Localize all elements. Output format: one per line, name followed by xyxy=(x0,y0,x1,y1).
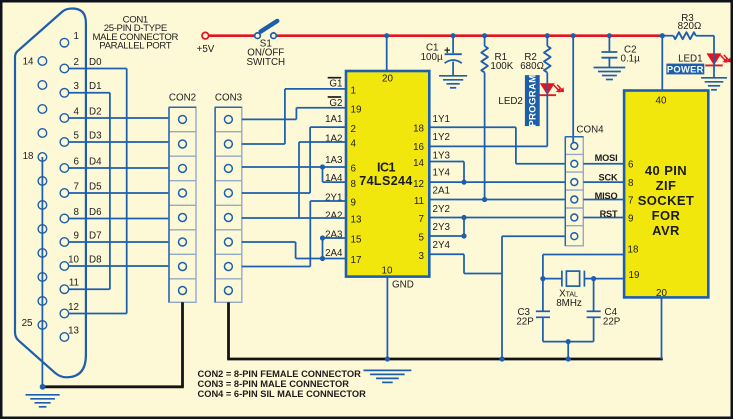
svg-text:PROGRAM: PROGRAM xyxy=(528,74,539,126)
svg-text:19: 19 xyxy=(629,270,640,281)
svg-text:10: 10 xyxy=(382,266,393,277)
svg-text:CON3: CON3 xyxy=(215,92,243,103)
svg-text:9: 9 xyxy=(628,213,633,224)
svg-text:9: 9 xyxy=(351,198,356,209)
svg-text:D8: D8 xyxy=(89,254,102,265)
svg-text:18: 18 xyxy=(628,244,639,255)
svg-text:FOR: FOR xyxy=(652,208,681,223)
svg-text:18: 18 xyxy=(23,151,34,162)
svg-text:D6: D6 xyxy=(89,207,102,218)
svg-text:1Y4: 1Y4 xyxy=(433,168,451,179)
svg-text:680Ω: 680Ω xyxy=(520,61,544,72)
svg-text:40 PIN: 40 PIN xyxy=(645,163,687,178)
svg-text:2A4: 2A4 xyxy=(325,248,343,259)
svg-text:25: 25 xyxy=(22,318,33,329)
svg-text:AVR: AVR xyxy=(652,223,680,238)
svg-text:D3: D3 xyxy=(89,130,102,141)
svg-text:12: 12 xyxy=(413,179,424,190)
svg-text:ZIF: ZIF xyxy=(656,178,677,193)
svg-text:10: 10 xyxy=(68,254,79,265)
svg-text:6: 6 xyxy=(351,164,357,175)
svg-text:2: 2 xyxy=(351,124,356,135)
svg-text:18: 18 xyxy=(413,123,424,134)
svg-text:5: 5 xyxy=(74,130,80,141)
svg-text:11: 11 xyxy=(414,196,424,207)
svg-text:2Y2: 2Y2 xyxy=(433,204,450,215)
svg-text:IC1: IC1 xyxy=(377,161,396,175)
svg-text:MISO: MISO xyxy=(595,191,618,201)
svg-text:G1: G1 xyxy=(329,79,342,90)
svg-text:CON3 = 8-PIN MALE CONNECTOR: CON3 = 8-PIN MALE CONNECTOR xyxy=(198,379,350,389)
svg-text:8: 8 xyxy=(351,179,357,190)
svg-text:9: 9 xyxy=(74,230,79,241)
svg-text:D0: D0 xyxy=(89,57,102,68)
svg-text:1A2: 1A2 xyxy=(325,134,342,145)
svg-text:+5V: +5V xyxy=(197,44,215,55)
svg-text:CON2: CON2 xyxy=(169,92,196,103)
svg-text:12: 12 xyxy=(68,302,79,313)
svg-text:D5: D5 xyxy=(89,181,102,192)
svg-text:6: 6 xyxy=(628,160,634,171)
svg-text:13: 13 xyxy=(68,325,79,336)
svg-text:D2: D2 xyxy=(89,106,102,117)
svg-text:20: 20 xyxy=(656,288,667,299)
svg-text:3: 3 xyxy=(74,81,80,92)
svg-text:1: 1 xyxy=(74,31,79,42)
svg-text:MOSI: MOSI xyxy=(595,153,618,163)
svg-text:14: 14 xyxy=(23,56,34,67)
svg-text:13: 13 xyxy=(351,215,362,226)
svg-text:820Ω: 820Ω xyxy=(678,21,702,32)
svg-text:5: 5 xyxy=(419,233,425,244)
svg-text:22P: 22P xyxy=(516,317,534,328)
svg-text:17: 17 xyxy=(351,255,362,266)
svg-text:19: 19 xyxy=(351,104,362,115)
svg-text:100K: 100K xyxy=(490,61,513,72)
svg-text:4: 4 xyxy=(351,139,357,150)
svg-text:RST: RST xyxy=(600,209,618,219)
svg-text:0.1µ: 0.1µ xyxy=(621,53,641,64)
svg-text:SOCKET: SOCKET xyxy=(638,193,695,208)
svg-text:D1: D1 xyxy=(89,81,102,92)
svg-text:POWER: POWER xyxy=(667,63,704,74)
svg-text:16: 16 xyxy=(413,142,424,153)
svg-text:15: 15 xyxy=(351,235,362,246)
svg-text:SCK: SCK xyxy=(599,172,618,182)
svg-text:20: 20 xyxy=(382,74,393,85)
svg-text:1Y2: 1Y2 xyxy=(433,132,450,143)
svg-text:7: 7 xyxy=(419,214,424,225)
svg-text:CON4: CON4 xyxy=(576,124,604,135)
svg-text:GND: GND xyxy=(392,280,414,291)
svg-text:1Y3: 1Y3 xyxy=(433,150,451,161)
svg-text:+: + xyxy=(444,45,450,57)
svg-text:7: 7 xyxy=(628,195,633,206)
svg-text:100µ: 100µ xyxy=(421,52,443,63)
svg-text:2: 2 xyxy=(74,57,79,68)
svg-text:1A1: 1A1 xyxy=(325,114,342,125)
svg-text:SWITCH: SWITCH xyxy=(246,57,285,68)
svg-text:14: 14 xyxy=(413,158,424,169)
svg-text:6: 6 xyxy=(74,156,80,167)
svg-text:7: 7 xyxy=(74,181,79,192)
svg-text:CON2 = 8-PIN FEMALE CONNECTOR: CON2 = 8-PIN FEMALE CONNECTOR xyxy=(198,369,362,379)
svg-text:2Y3: 2Y3 xyxy=(433,222,451,233)
svg-text:CON4 = 6-PIN SIL MALE CONNECTO: CON4 = 6-PIN SIL MALE CONNECTOR xyxy=(198,389,367,399)
svg-text:1: 1 xyxy=(351,86,356,97)
svg-text:2Y4: 2Y4 xyxy=(433,240,451,251)
svg-text:D7: D7 xyxy=(89,230,102,241)
svg-text:40: 40 xyxy=(656,95,667,106)
svg-text:1A3: 1A3 xyxy=(325,155,343,166)
svg-text:8MHz: 8MHz xyxy=(556,298,582,309)
svg-text:1Y1: 1Y1 xyxy=(433,114,450,125)
svg-text:4: 4 xyxy=(74,106,80,117)
svg-text:PARALLEL PORT: PARALLEL PORT xyxy=(99,40,172,51)
svg-text:11: 11 xyxy=(69,278,79,289)
svg-text:LED2: LED2 xyxy=(498,96,523,107)
svg-text:8: 8 xyxy=(628,178,634,189)
svg-text:74LS244: 74LS244 xyxy=(359,174,413,188)
svg-text:3: 3 xyxy=(419,251,425,262)
svg-text:2A1: 2A1 xyxy=(433,186,450,197)
svg-text:2A2: 2A2 xyxy=(325,211,342,222)
svg-text:D4: D4 xyxy=(89,156,102,167)
svg-text:8: 8 xyxy=(74,207,80,218)
svg-text:22P: 22P xyxy=(603,317,621,328)
